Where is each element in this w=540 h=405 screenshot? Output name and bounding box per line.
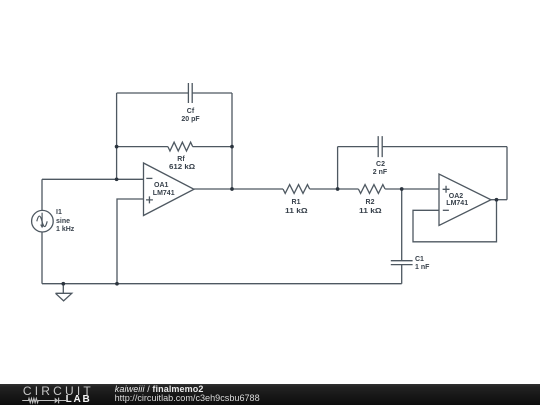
- node R2 C1 OA2: [400, 187, 404, 191]
- node Rf left: [115, 145, 119, 149]
- label R2: [366, 199, 375, 206]
- wire I1 bottom: [41, 232, 43, 284]
- label Rf: [177, 156, 184, 163]
- node OA2 output: [495, 198, 499, 202]
- wire feedback right vertical: [231, 93, 233, 189]
- wire ground bottom: [42, 283, 402, 285]
- title kaiweiii / finalmemo2: [115, 385, 204, 394]
- footer bar: [0, 384, 540, 405]
- node R1 R2 C2: [336, 187, 340, 191]
- ground: [56, 284, 72, 301]
- label I1: [56, 209, 62, 216]
- wire C2 top: [338, 146, 507, 148]
- resistor Rf: [168, 142, 193, 151]
- wire OA2 feedback: [413, 200, 497, 242]
- wire C2 left vertical: [337, 147, 339, 189]
- logo CIRCUIT: [23, 385, 94, 397]
- node Rf right: [230, 145, 234, 149]
- label Cf: [187, 108, 194, 115]
- wire C2 right vertical: [506, 147, 508, 200]
- label C1: [415, 256, 424, 263]
- capacitor C2: [378, 136, 382, 157]
- wire R2 to OA2: [385, 188, 439, 190]
- node OA1 output: [230, 187, 234, 191]
- node OA1 minus: [115, 177, 119, 181]
- op-amp OA1: [144, 163, 195, 216]
- wire OA1 output: [194, 188, 283, 190]
- label C2: [376, 161, 385, 168]
- source I1 arrowhead: [40, 225, 44, 229]
- logo LAB: [66, 395, 92, 405]
- capacitor Cf: [188, 83, 192, 103]
- logo resistor diode: [20, 395, 68, 405]
- wire Rf: [117, 146, 232, 148]
- resistor R1: [283, 185, 310, 194]
- wire OA1 minus input: [42, 178, 144, 180]
- label OA1: [154, 182, 168, 189]
- wire R1 to R2: [310, 188, 359, 190]
- op-amp OA2: [439, 174, 491, 226]
- node plus ground: [115, 282, 119, 286]
- label R1: [292, 199, 301, 206]
- capacitor C1: [391, 261, 413, 265]
- node ground: [61, 282, 65, 286]
- wire C1 vertical: [401, 189, 403, 284]
- wire feedback left vertical: [116, 93, 118, 179]
- wire OA1 plus input: [117, 199, 144, 284]
- source I1: [32, 210, 54, 232]
- wire OA2 output: [491, 199, 507, 201]
- resistor R2: [358, 185, 385, 194]
- label OA2: [449, 193, 463, 200]
- wire Cf top: [117, 92, 232, 94]
- wire I1 top: [41, 179, 43, 210]
- url: [115, 394, 260, 403]
